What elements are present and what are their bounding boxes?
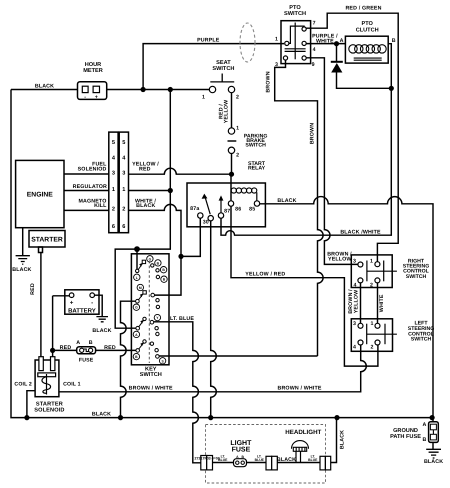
svg-text:1: 1 xyxy=(122,187,125,193)
svg-text:YELLOW: YELLOW xyxy=(354,290,360,314)
svg-text:YELLOW: YELLOW xyxy=(328,256,352,262)
svg-text:+: + xyxy=(70,300,74,307)
svg-text:30: 30 xyxy=(203,220,209,226)
svg-text:86: 86 xyxy=(235,207,241,213)
svg-text:RED: RED xyxy=(30,283,36,295)
svg-text:B: B xyxy=(423,437,427,443)
svg-text:BLACK: BLACK xyxy=(277,457,296,463)
svg-text:BLACK: BLACK xyxy=(339,430,345,449)
svg-text:G: G xyxy=(149,257,152,261)
svg-text:COIL 1: COIL 1 xyxy=(63,381,81,387)
svg-text:FUSE: FUSE xyxy=(232,447,251,454)
svg-text:6: 6 xyxy=(112,224,115,230)
svg-text:BLUE: BLUE xyxy=(255,458,265,462)
svg-text:2: 2 xyxy=(112,207,115,213)
svg-text:2: 2 xyxy=(370,344,373,350)
svg-text:87: 87 xyxy=(224,209,230,215)
svg-text:85: 85 xyxy=(249,207,255,213)
svg-text:3: 3 xyxy=(122,171,125,177)
svg-text:6: 6 xyxy=(122,224,125,230)
svg-text:BLACK: BLACK xyxy=(277,198,296,204)
svg-text:GROUND: GROUND xyxy=(393,428,418,434)
svg-text:BROWN: BROWN xyxy=(310,123,316,144)
svg-text:BLACK /WHITE: BLACK /WHITE xyxy=(340,230,381,236)
svg-text:A: A xyxy=(76,340,80,346)
svg-text:RELAY: RELAY xyxy=(248,166,266,172)
svg-text:2: 2 xyxy=(370,282,373,288)
svg-text:BLUE: BLUE xyxy=(308,458,318,462)
svg-text:ENGINE: ENGINE xyxy=(27,192,54,199)
svg-text:5: 5 xyxy=(122,140,125,146)
svg-text:PTO: PTO xyxy=(361,21,373,27)
svg-text:7: 7 xyxy=(313,21,316,27)
svg-text:4: 4 xyxy=(353,344,356,350)
svg-text:9: 9 xyxy=(312,62,315,68)
svg-text:SWITCH: SWITCH xyxy=(212,66,234,72)
svg-text:LT. BLUE: LT. BLUE xyxy=(170,316,194,322)
svg-text:B: B xyxy=(392,38,396,44)
svg-text:WHITE: WHITE xyxy=(379,294,385,312)
svg-text:BLACK: BLACK xyxy=(92,328,111,334)
svg-text:3: 3 xyxy=(353,259,356,265)
svg-text:1: 1 xyxy=(202,95,205,101)
svg-text:2: 2 xyxy=(236,95,239,101)
svg-text:SOLENIOD: SOLENIOD xyxy=(78,166,107,172)
svg-text:1: 1 xyxy=(112,187,115,193)
svg-text:SWITCH: SWITCH xyxy=(406,274,427,280)
svg-text:CLUTCH: CLUTCH xyxy=(356,28,379,34)
svg-text:27217F03 4=00: 27217F03 4=00 xyxy=(195,457,220,461)
svg-text:YELLOW / RED: YELLOW / RED xyxy=(245,272,285,278)
svg-text:FUSE: FUSE xyxy=(79,358,94,364)
svg-text:5: 5 xyxy=(112,140,115,146)
svg-text:SOLENOID: SOLENOID xyxy=(34,407,64,413)
svg-text:COIL 2: COIL 2 xyxy=(14,381,32,387)
svg-text:2: 2 xyxy=(236,153,239,159)
svg-text:RED: RED xyxy=(60,345,72,351)
svg-text:1: 1 xyxy=(370,321,373,327)
svg-text:REGULATOR: REGULATOR xyxy=(73,184,107,190)
svg-text:BLACK: BLACK xyxy=(92,411,111,417)
svg-text:SWITCH: SWITCH xyxy=(245,143,266,149)
svg-text:BROWN / WHITE: BROWN / WHITE xyxy=(277,386,321,392)
svg-text:3: 3 xyxy=(353,321,356,327)
svg-text:M: M xyxy=(139,286,142,290)
svg-text:STARTER: STARTER xyxy=(31,236,63,243)
svg-text:BROWN: BROWN xyxy=(266,71,272,92)
svg-text:-: - xyxy=(84,94,86,100)
svg-text:KILL: KILL xyxy=(94,203,107,209)
svg-text:B: B xyxy=(89,340,93,346)
svg-text:YELLOW: YELLOW xyxy=(223,100,229,124)
svg-text:HEADLIGHT: HEADLIGHT xyxy=(285,429,321,436)
svg-text:G: G xyxy=(135,306,138,310)
svg-text:1: 1 xyxy=(275,36,278,42)
svg-text:METER: METER xyxy=(83,68,103,74)
svg-text:BATTERY: BATTERY xyxy=(68,307,96,314)
svg-text:1: 1 xyxy=(236,126,239,132)
svg-text:BLACK: BLACK xyxy=(12,267,31,273)
svg-text:3: 3 xyxy=(112,171,115,177)
svg-text:RED: RED xyxy=(139,166,151,172)
svg-text:PATH FUSE: PATH FUSE xyxy=(390,434,421,440)
svg-text:BLACK: BLACK xyxy=(424,459,443,465)
svg-text:87a: 87a xyxy=(190,206,199,212)
svg-text:4: 4 xyxy=(353,282,356,288)
svg-text:A: A xyxy=(423,422,427,428)
svg-text:+: + xyxy=(95,94,98,100)
svg-text:RED: RED xyxy=(104,345,116,351)
svg-text:1: 1 xyxy=(370,259,373,265)
svg-text:BLACK: BLACK xyxy=(136,203,155,209)
svg-text:BLACK: BLACK xyxy=(35,83,54,89)
svg-text:BROWN / WHITE: BROWN / WHITE xyxy=(129,385,173,391)
svg-text:RED / GREEN: RED / GREEN xyxy=(345,5,381,11)
svg-text:2: 2 xyxy=(122,207,125,213)
svg-text:SWITCH: SWITCH xyxy=(140,372,162,378)
svg-text:WHITE: WHITE xyxy=(316,38,334,44)
svg-text:3: 3 xyxy=(275,62,278,68)
svg-text:L: L xyxy=(136,276,138,280)
svg-text:PURPLE: PURPLE xyxy=(197,38,220,44)
svg-text:4: 4 xyxy=(313,47,316,53)
svg-text:A: A xyxy=(340,38,344,44)
svg-text:SWITCH: SWITCH xyxy=(411,337,432,343)
svg-text:-: - xyxy=(91,300,93,307)
svg-text:SWITCH: SWITCH xyxy=(284,11,306,17)
